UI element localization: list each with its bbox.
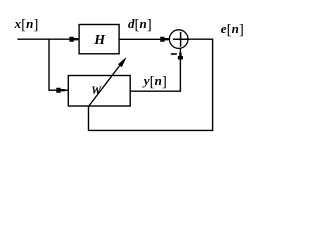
- svg-text:d[n]: d[n]: [128, 16, 152, 33]
- svg-text:H: H: [93, 33, 106, 48]
- minus sign at summing junction: [171, 53, 177, 55]
- wire y[n] from W to summing junction: [130, 49, 180, 92]
- wire e[n] output and feedback loop to W: [89, 39, 213, 130]
- block W (adaptive): [68, 76, 130, 107]
- svg-text:y[n]: y[n]: [142, 73, 167, 90]
- adaptation diagonal arrow through W: [89, 62, 123, 106]
- arrowhead up into summing junction: [178, 53, 183, 60]
- wire x[n] input to H: [17, 38, 79, 40]
- arrowhead into summing junction: [160, 37, 169, 42]
- arrowhead into H: [69, 37, 78, 42]
- block H: [79, 25, 119, 54]
- svg-text:x[n]: x[n]: [14, 16, 39, 33]
- wire H to summing junction: [119, 38, 169, 40]
- wire branch down from node at x=49: [49, 39, 68, 91]
- summing junction: [169, 30, 188, 49]
- svg-text:e[n]: e[n]: [221, 21, 244, 38]
- arrowhead into W: [56, 88, 65, 93]
